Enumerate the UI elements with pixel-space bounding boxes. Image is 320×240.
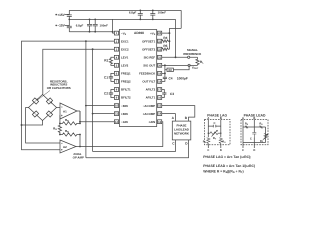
wire EXC1 drop to -BIN and phase D [85,41,87,158]
svg-text:6.8µF: 6.8µF [76,24,84,28]
svg-text:A: A [207,117,209,120]
label terminal A [172,116,175,120]
svg-text:C2: C2 [104,92,108,96]
terminal Vout [188,64,190,66]
svg-text:19: 19 [158,73,161,76]
svg-text:FEEDBACK: FEEDBACK [139,72,156,76]
svg-text:OFFSET2: OFFSET2 [142,47,155,51]
node feedback junctions [164,64,166,74]
label C3 [170,92,174,96]
svg-text:FREQ1: FREQ1 [121,72,131,76]
capacitor 6.8uF lower pair [87,19,92,31]
capacitor 100nF lower pair [93,19,98,31]
capacitor bypass -15V (at x=69.3) [67,19,72,31]
terminal signal reference [188,56,190,58]
svg-text:10: 10 [115,105,118,108]
svg-text:20: 20 [158,64,161,67]
wire pin11 +BIN stub [93,113,115,115]
svg-text:BFILT1: BFILT1 [121,88,131,92]
junction dots op-amp block [59,105,94,148]
label terminal D [185,142,188,146]
wire -Vs drop to pin 1 [113,19,115,33]
svg-text:OR CAPACITORS: OR CAPACITORS [47,86,71,90]
node -15V bullet [55,25,57,27]
svg-text:D: D [253,149,255,152]
svg-text:AFILT2: AFILT2 [146,88,156,92]
+15V supply label [57,13,65,17]
phase lead capacitor C [252,133,256,138]
node R4 R5 +Vs junctions [168,32,170,42]
svg-text:R2: R2 [168,69,172,72]
svg-text:21: 21 [158,56,161,59]
wire bridge right vertex to A1 input [57,107,61,109]
svg-text:−AIN: −AIN [121,120,128,124]
label 6.8uF lower [76,24,84,28]
wire RB upper feedback to A1 output and pin12 [79,111,81,123]
junction dots supply rails [68,10,153,33]
wire pin19 feedback stub [162,72,165,74]
op-amp chip AD698 body [119,30,156,127]
bridge arm element D (bottom-right) [46,111,52,117]
svg-text:24: 24 [158,32,161,35]
pin name labels right column [139,31,156,124]
svg-text:13: 13 [158,121,161,124]
label RG [53,127,57,132]
label dual op amp [73,152,84,159]
label C1 [104,76,108,80]
impedance bridge diamond [29,95,57,121]
svg-text:EXC1: EXC1 [121,39,129,43]
label RB lower [65,129,69,134]
svg-text:SIG REF: SIG REF [144,56,156,60]
phase lead terminals A B [242,117,255,120]
pin name labels left column [121,31,131,124]
wire EXC2 to bridge top [43,49,115,95]
svg-text:A2: A2 [63,145,67,149]
svg-text:C1: C1 [104,76,108,80]
label C4 1000pF [169,76,188,80]
wire -15V feed [65,24,70,26]
bridge arm element C (bottom-left) [32,111,38,117]
wire pin14 +ACOMP to phase network A [162,114,176,121]
resistor RB lower [60,133,80,136]
node SIG REF junction [175,56,177,58]
pin boxes 24-13 right with numbers [158,31,162,123]
capacitor C2 across BFILT1/BFILT2 [109,89,115,97]
node +15V bullet [55,14,57,16]
phase lead internal rails [243,120,266,149]
pin boxes 1-12 left with numbers [114,31,118,123]
svg-text:12: 12 [115,121,118,124]
svg-text:NETWORK: NETWORK [174,132,190,136]
label R1 [104,59,108,63]
resistor R2 box [167,68,173,71]
op-amp A1 [60,103,77,119]
svg-text:+BIN: +BIN [121,112,128,116]
formula phase lag [203,155,251,159]
phase lag/lead network box [172,121,191,140]
label terminal B [185,116,188,120]
capacitor 6.8uF upper pair [138,10,143,19]
resistor R1 across LEV1/LEV2 [109,57,114,65]
wire rail A (+15V rail) [69,9,181,11]
svg-text:SIG OUT: SIG OUT [143,64,155,68]
label RL [200,60,204,65]
label AD698 [134,31,144,35]
svg-text:EXC2: EXC2 [121,47,129,51]
svg-text:RL: RL [200,60,204,65]
phase lead variable resistor RT [263,134,269,141]
node bridge-EXC1 junction [21,124,23,126]
node EXC1 junction [85,40,87,42]
wire EXC2 drop to +BIN and phase C [92,49,94,151]
label terminal C [172,142,175,146]
wire ground rail to SIG REF [175,19,177,57]
-15V supply label [57,24,65,28]
op-amp A1 input polarity marks [61,107,63,116]
phase lag detail title [207,114,227,118]
svg-text:OFFSET1: OFFSET1 [142,39,155,43]
label RB upper [65,118,69,123]
leader line from label to bridge [38,91,51,101]
phase lag capacitor C [208,125,221,128]
svg-text:PHASE LAG: PHASE LAG [207,114,227,118]
svg-text:D: D [220,149,222,152]
label 100nF lower [100,24,109,28]
svg-text:17: 17 [158,89,161,92]
svg-text:18: 18 [158,81,161,84]
svg-text:REFERENCE: REFERENCE [183,52,201,56]
resistor RB upper [60,122,80,125]
svg-text:C: C [207,149,209,152]
svg-text:FREQ2: FREQ2 [121,80,131,84]
bridge arm element A (top-left) [32,98,38,104]
node EXC2 junction [92,48,94,50]
phase lag junction dots [208,133,222,134]
capacitor C3 across AFILT [162,89,167,97]
wire rail B (ground rail) [69,18,175,20]
label signal reference [183,48,201,56]
resistor R4 [162,40,170,43]
phase lead detail title [244,114,266,118]
formula phase lead [203,164,255,168]
wire +15V feed [65,13,70,15]
svg-text:B: B [253,117,255,120]
label Vout [192,66,199,71]
bridge arm element B (top-right) [46,98,52,104]
phase lag detail dashed box [205,120,231,145]
wire A2 output to pin13 +AIN [76,122,163,147]
wire pin24 +Vs to +15V rail [162,10,182,49]
svg-text:A: A [242,117,244,120]
capacitor C4 [162,77,167,81]
svg-text:−15V: −15V [57,24,65,28]
wire A1 output to pin12 -AIN [77,111,114,122]
svg-text:PHASE LEAD = Arc Tan 1/(ωRC): PHASE LEAD = Arc Tan 1/(ωRC) [203,164,255,168]
wire pin10 -BIN stub [86,105,115,107]
svg-text:6.8µF: 6.8µF [129,11,137,15]
svg-text:C: C [242,149,244,152]
svg-text:C: C [250,138,252,141]
label C2 [104,92,108,96]
wire bridge left vertex to A2 input [26,108,60,144]
svg-text:16: 16 [158,97,161,100]
phase lag terminals A B [207,117,222,120]
wire RB lower feedback to A2 output [79,135,81,147]
svg-text:AD698: AD698 [134,31,144,35]
svg-text:+15V: +15V [57,13,65,17]
svg-text:C3: C3 [170,92,174,96]
svg-text:15: 15 [158,105,161,108]
svg-text:OUT FILT: OUT FILT [142,80,155,84]
label R5 [163,44,167,48]
svg-text:−BIN: −BIN [121,104,128,108]
label R4 [163,36,167,40]
phase lead resistor RS right [260,126,263,129]
resistor RG [58,123,61,134]
wire SIG OUT line [162,64,198,66]
svg-text:+ACOMP: +ACOMP [143,112,156,116]
svg-text:22: 22 [158,48,161,51]
svg-text:BFILT2: BFILT2 [121,96,131,100]
phase lead resistor RS left [245,126,248,129]
wire SIG REF line [162,56,198,58]
label resistors inductors or capacitors [47,79,71,90]
svg-text:R4: R4 [163,36,167,40]
svg-text:23: 23 [158,40,161,43]
svg-text:R1: R1 [104,59,108,63]
wire feedback vertical [164,65,166,77]
svg-text:1000pF: 1000pF [177,76,188,80]
svg-text:R5: R5 [163,44,167,48]
phase lead detail dashed box [241,120,268,145]
wire bridge bottom to EXC1 vertical [22,121,43,126]
wire R2 connections [165,65,189,69]
wire rail C (-15V rail) [69,31,112,33]
svg-text:B: B [220,117,222,120]
phase lag variable resistor RT [208,130,221,136]
wire C line EXC2 to phase network C [93,140,176,152]
phase lag resistor RS left [207,138,210,144]
wire D line to phase network D [86,140,189,158]
phase lead terminals C D [242,149,255,152]
svg-text:OP AMP: OP AMP [73,155,84,159]
wire A1 inverting input down [59,116,61,124]
capacitor C1 across FREQ1/FREQ2 [109,73,115,81]
label 100nF upper [158,11,167,15]
svg-text:14: 14 [158,113,161,116]
svg-text:+AIN: +AIN [149,120,156,124]
svg-text:WHERE R = RS||(RS + RT): WHERE R = RS||(RS + RT) [203,170,243,175]
phase lag resistor RS right [219,138,222,144]
svg-text:AFILT1: AFILT1 [146,96,156,100]
capacitor bypass +15V (at x=69.3) [67,10,72,19]
svg-text:100nF: 100nF [158,11,167,15]
svg-text:LEV2: LEV2 [121,64,129,68]
svg-text:A1: A1 [63,109,67,113]
svg-text:LEV1: LEV1 [121,56,129,60]
svg-text:C4: C4 [169,76,173,80]
phase lag internal rails [208,120,221,149]
phase lag terminals C D [207,149,222,152]
formula where R [203,170,243,175]
svg-text:100nF: 100nF [100,24,109,28]
node -Vs junction dot [112,31,114,33]
resistor RL [196,57,199,65]
op-amp A2 [60,140,76,153]
op-amp A2 input polarity marks [61,143,63,150]
wire EXC1 loop to A2 input [22,41,115,150]
wire pin15 -ACOMP to phase network B [162,106,195,122]
svg-text:−ACOMP: −ACOMP [143,104,156,108]
svg-text:C: C [214,122,216,125]
label 6.8uF upper [129,11,137,15]
resistor R5 [162,48,170,51]
capacitor 100nF upper pair [150,10,155,19]
svg-text:PHASE LAG = Arc Tan (ωRC);: PHASE LAG = Arc Tan (ωRC); [203,155,251,159]
